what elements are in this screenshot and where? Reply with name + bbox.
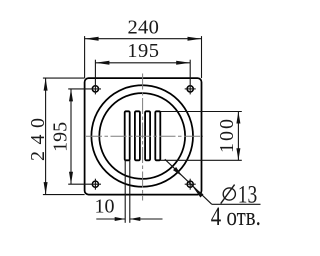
dimension line 195 left bbox=[70, 89, 72, 184]
extension line top-right corner up bbox=[201, 36, 203, 78]
slot S4 bbox=[155, 111, 160, 160]
extension line through top-right hole up bbox=[189, 60, 191, 95]
slot S1 bbox=[125, 111, 130, 160]
centermark tick hole top-right bbox=[185, 88, 196, 90]
centermark tick hole bottom-left bbox=[94, 179, 96, 190]
extension line right slot bottom bbox=[160, 159, 241, 161]
leader arrow upper bbox=[173, 167, 182, 176]
hole bottom-left bbox=[92, 181, 98, 187]
svg-text:240: 240 bbox=[127, 17, 159, 39]
hole top-left bbox=[92, 86, 98, 92]
slot S2 bbox=[135, 111, 140, 160]
extension line down slot1 left bbox=[124, 160, 126, 223]
leader line diagonal bbox=[165, 159, 212, 204]
plate (square flange 240x240) bbox=[85, 78, 202, 195]
dimension line 10 bottom left segment bbox=[96, 218, 125, 220]
outer circle bbox=[91, 85, 193, 187]
vertical centerline bbox=[142, 74, 144, 201]
dimension line 240 top bbox=[85, 38, 202, 40]
inner circle bbox=[99, 93, 185, 179]
extension line top-left corner up bbox=[84, 36, 86, 78]
extension line through top-left hole up bbox=[94, 60, 96, 95]
leader arrow lower bbox=[193, 187, 204, 198]
svg-text:10: 10 bbox=[95, 196, 115, 218]
leader shelf bbox=[212, 203, 261, 205]
svg-text:195: 195 bbox=[127, 40, 159, 62]
centermark ticks hole bottom-right bbox=[185, 183, 196, 185]
svg-text:100: 100 bbox=[216, 117, 238, 153]
extension line right slot top bbox=[160, 111, 241, 113]
hole top-right bbox=[187, 86, 193, 92]
dimension line 10 bottom right segment bbox=[130, 218, 163, 220]
extension line left through bottom-left hole bbox=[68, 183, 101, 185]
extension line down slot1 right bbox=[129, 160, 131, 223]
horizontal centerline bbox=[86, 135, 203, 137]
diameter symbol bbox=[223, 188, 235, 200]
slot S3 bbox=[145, 111, 150, 160]
svg-text:195: 195 bbox=[49, 122, 71, 152]
dimension line 100 right bbox=[237, 112, 239, 161]
extension line left through top-left hole bbox=[68, 88, 101, 90]
svg-text:4 отв.: 4 отв. bbox=[211, 202, 261, 231]
extension line left at plate top bbox=[43, 77, 85, 79]
dimension line 240 left bbox=[45, 78, 47, 195]
extension line left at plate bottom bbox=[43, 194, 85, 196]
dimension line 195 top bbox=[95, 62, 190, 64]
svg-text:240: 240 bbox=[27, 112, 49, 162]
hole bottom-right bbox=[187, 181, 193, 187]
